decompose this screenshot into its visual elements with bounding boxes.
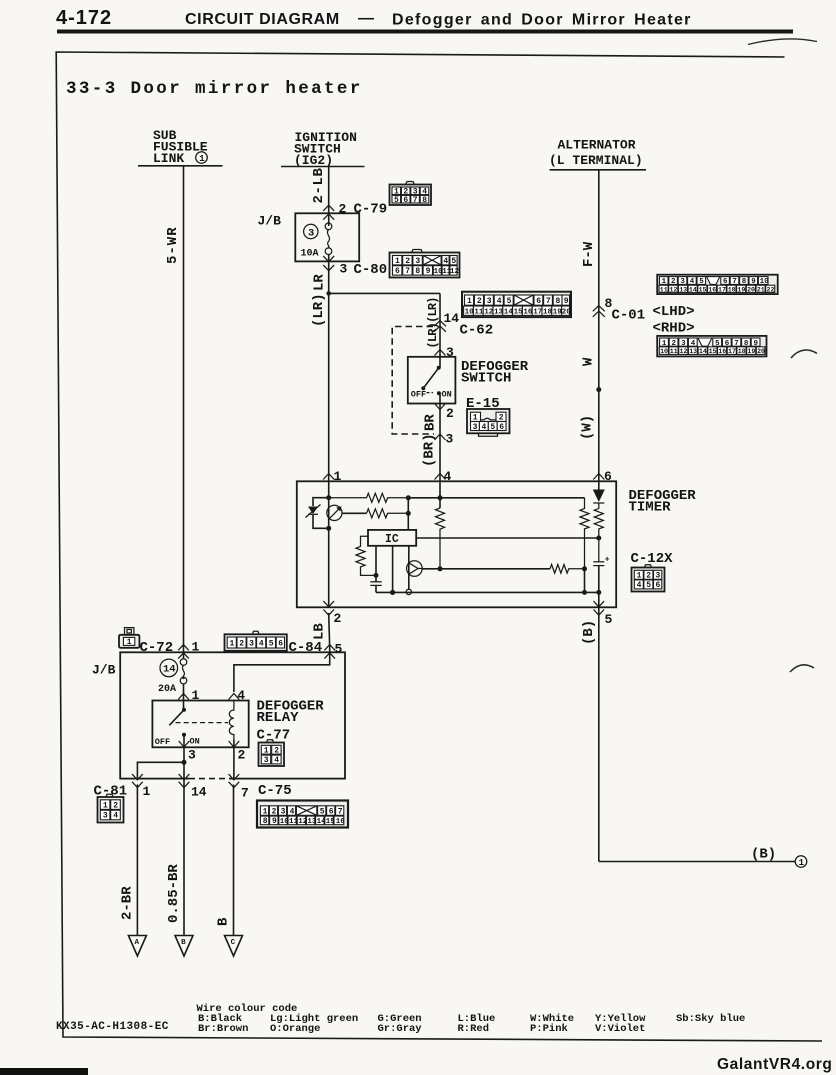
svg-text:3: 3 <box>473 423 478 432</box>
svg-text:<LHD>: <LHD> <box>653 304 695 320</box>
scan artifact arc right edge middle <box>790 665 814 672</box>
wire relay pin 3 down <box>183 735 185 763</box>
svg-text:7: 7 <box>241 786 249 801</box>
svg-text:ALTERNATOR: ALTERNATOR <box>558 138 636 153</box>
svg-text:5: 5 <box>490 423 495 432</box>
resistor R2 (lower horizontal) <box>367 509 409 518</box>
svg-text:1: 1 <box>637 572 642 581</box>
pin chevron out of switch pin 2 <box>435 404 446 410</box>
indicator circle with arrow U2 <box>327 505 342 520</box>
svg-text:C-62: C-62 <box>460 323 494 339</box>
connector crossing C-75 pin7 at J/B edge <box>229 774 240 788</box>
svg-text:<RHD>: <RHD> <box>653 321 695 337</box>
svg-text:20: 20 <box>757 348 765 355</box>
diode D2 on pin6 line <box>593 490 605 504</box>
scan artifact black bar bottom left <box>0 1068 88 1075</box>
svg-text:0.85-BR: 0.85-BR <box>166 864 182 923</box>
svg-text:RELAY: RELAY <box>257 710 300 726</box>
wire IC bottom left vertical <box>375 546 377 582</box>
svg-text:1: 1 <box>230 640 235 649</box>
resistor R1 (upper horizontal) <box>329 493 409 502</box>
svg-text:13: 13 <box>679 286 687 293</box>
connector crossing C-80 on wire <box>323 256 334 271</box>
svg-text:(B): (B) <box>751 847 776 863</box>
svg-text:C-01: C-01 <box>612 308 646 324</box>
svg-text:2: 2 <box>339 202 347 217</box>
ground symbol A <box>128 936 146 957</box>
node at R2 right <box>406 511 411 516</box>
connector chevron E-15 pin 3 <box>435 434 446 440</box>
node on pin1 wire lower <box>326 526 331 531</box>
svg-text:5: 5 <box>335 642 343 657</box>
svg-text:Br:Brown: Br:Brown <box>198 1023 248 1035</box>
circled fuse number 14 <box>160 659 178 677</box>
svg-text:+: + <box>605 556 610 565</box>
resistor R4 (left of IC, vertical) <box>356 536 376 575</box>
connector icon C-72 <box>119 628 139 648</box>
wire 2-BR to ground A <box>136 785 138 936</box>
connector drawing C-84 <box>225 631 287 651</box>
svg-text:20: 20 <box>747 286 755 293</box>
svg-text:18: 18 <box>738 348 746 355</box>
svg-text:16: 16 <box>708 286 716 293</box>
svg-text:—: — <box>358 10 374 27</box>
svg-text:12: 12 <box>680 348 688 355</box>
svg-text:1: 1 <box>143 784 151 799</box>
svg-text:5: 5 <box>646 581 651 590</box>
svg-text:12: 12 <box>670 286 678 293</box>
svg-text:2: 2 <box>113 801 118 810</box>
svg-text:6: 6 <box>499 423 504 432</box>
svg-text:3: 3 <box>188 748 196 763</box>
connector crossing C-62 (double chevron) <box>434 321 446 332</box>
svg-text:LINK: LINK <box>153 151 184 166</box>
svg-text:2: 2 <box>238 748 246 763</box>
svg-text:(B): (B) <box>581 620 597 645</box>
pin chevron timer pin 1 <box>323 474 334 480</box>
svg-text:OFF: OFF <box>411 390 426 400</box>
relay ON contact <box>182 733 186 737</box>
svg-text:10: 10 <box>465 308 475 316</box>
pin chevron relay pin 4 <box>229 694 240 700</box>
pin chevron relay pin 1 <box>178 694 189 700</box>
connector crossing timer pin 2 <box>323 601 334 615</box>
svg-text:12: 12 <box>484 308 494 316</box>
wire branch to switch (horizontal) <box>329 292 440 294</box>
open terminal circle on rail <box>406 589 411 594</box>
wire pin3 down through J/B edge <box>183 762 185 785</box>
svg-text:J/B: J/B <box>258 214 282 229</box>
svg-text:C-80: C-80 <box>354 262 388 278</box>
relay actuating dashed link <box>176 722 229 724</box>
pin chevron into switch pin 3 <box>435 350 446 356</box>
internal ground rail <box>376 591 599 593</box>
svg-text:21: 21 <box>757 286 765 293</box>
svg-text:22: 22 <box>767 286 775 293</box>
underline of alternator <box>550 169 647 171</box>
svg-text:4: 4 <box>259 640 264 649</box>
node pin6 at rail <box>596 590 601 595</box>
svg-text:5-WR: 5-WR <box>165 226 181 264</box>
node pin4 top <box>438 495 443 500</box>
svg-text:14: 14 <box>504 308 514 316</box>
svg-text:B: B <box>181 939 186 947</box>
wire branch to C-81 <box>137 762 184 778</box>
svg-text:1: 1 <box>264 746 269 755</box>
svg-text:8: 8 <box>415 267 420 276</box>
node on pin1 wire upper <box>326 495 331 500</box>
node artifact dot on alternator wire <box>596 387 601 392</box>
wire into switch <box>439 347 441 368</box>
svg-text:Gr:Gray: Gr:Gray <box>378 1023 423 1035</box>
node relay pin3 branch <box>182 760 187 765</box>
wire (LR) main down to timer pin 1 <box>328 293 330 481</box>
svg-text:(L TERMINAL): (L TERMINAL) <box>549 153 643 168</box>
wire upper rail to pin4 and right branch <box>408 497 584 499</box>
svg-text:(W): (W) <box>580 415 596 440</box>
svg-text:15: 15 <box>699 286 707 293</box>
svg-text:GalantVR4.org: GalantVR4.org <box>717 1056 832 1073</box>
svg-text:9: 9 <box>272 817 277 826</box>
wire LB timer pin2 down to C-84 <box>329 613 330 648</box>
dashed segment of J/B bottom edge <box>189 777 229 779</box>
wire R junction down into IC <box>407 498 409 530</box>
svg-text:6: 6 <box>278 640 283 649</box>
svg-text:C-72: C-72 <box>140 640 174 656</box>
internal wire pin1 vertical through timer <box>328 481 330 607</box>
svg-text:11: 11 <box>474 308 484 316</box>
wire fuse to relay pin 1 <box>183 684 185 710</box>
svg-text:5: 5 <box>451 257 456 266</box>
svg-text:6: 6 <box>536 297 541 306</box>
svg-text:C-84: C-84 <box>289 640 323 656</box>
wire transistor to right resistor <box>422 568 550 570</box>
resistor R5 (horizontal right) <box>550 565 585 574</box>
svg-text:20: 20 <box>562 308 572 316</box>
switch contact and lever <box>437 366 441 370</box>
wire 0.85-BR to ground B <box>183 785 185 936</box>
pin chevron relay pin 2 <box>229 741 240 747</box>
fuse element with terminals <box>325 223 332 230</box>
svg-text:C: C <box>231 939 236 947</box>
connector drawing C-01 LHD 22pin <box>657 275 778 294</box>
connector crossing C-01 (double chevron) <box>593 306 605 317</box>
svg-text:KX35-AC-H1308-EC: KX35-AC-H1308-EC <box>56 1021 169 1033</box>
circled ground reference 1 <box>795 856 807 868</box>
node IC middle at rail <box>390 590 395 595</box>
svg-text:ON: ON <box>442 390 452 400</box>
svg-text:18: 18 <box>543 308 553 316</box>
svg-text:12: 12 <box>450 268 460 276</box>
wire branch to switch (vertical, through C-62) <box>439 293 441 347</box>
svg-text:2-BR: 2-BR <box>120 886 136 920</box>
svg-text:13: 13 <box>307 818 317 826</box>
wire 5-WR from fusible link down to J/B C-72 <box>183 166 185 643</box>
svg-text:1: 1 <box>103 801 108 810</box>
wire circle to lower resistor <box>342 512 367 514</box>
svg-text:14: 14 <box>689 286 697 293</box>
svg-text:LB: LB <box>312 623 328 640</box>
circled fuse number 3 <box>304 224 318 238</box>
wire C-84 pin5 down and left to relay pin 4 <box>234 648 330 692</box>
svg-text:11: 11 <box>660 286 668 293</box>
svg-text:17: 17 <box>728 348 736 355</box>
connector drawing C-12X <box>632 565 665 592</box>
svg-text:10: 10 <box>280 818 290 826</box>
svg-text:CIRCUIT DIAGRAM: CIRCUIT DIAGRAM <box>185 11 340 28</box>
svg-text:SWITCH: SWITCH <box>461 371 511 387</box>
svg-text:17: 17 <box>718 286 726 293</box>
svg-text:15: 15 <box>709 348 717 355</box>
svg-text:O:Orange: O:Orange <box>270 1023 320 1035</box>
svg-text:14: 14 <box>163 664 176 676</box>
defogger timer box <box>297 481 616 607</box>
defogger switch box <box>408 357 456 404</box>
svg-text:3: 3 <box>487 297 492 306</box>
svg-text:R:Red: R:Red <box>458 1023 490 1035</box>
svg-text:1: 1 <box>799 858 805 868</box>
svg-text:4: 4 <box>113 812 118 821</box>
svg-text:1: 1 <box>263 807 268 816</box>
svg-text:2: 2 <box>499 414 504 423</box>
scan artifact arc right edge upper <box>791 350 817 358</box>
svg-text:LR: LR <box>312 274 328 291</box>
svg-text:14: 14 <box>191 785 207 800</box>
connector crossing timer pin 5 <box>594 601 605 615</box>
svg-text:4: 4 <box>497 297 502 306</box>
switch ON contact <box>437 391 441 395</box>
svg-text:15: 15 <box>514 308 524 316</box>
svg-text:IC: IC <box>385 533 399 546</box>
svg-text:(BR): (BR) <box>422 433 438 467</box>
svg-text:3: 3 <box>249 640 254 649</box>
connector drawing C-01 RHD 20pin <box>657 336 766 357</box>
svg-text:4: 4 <box>290 807 295 816</box>
wire pin6 vertical top <box>598 481 600 489</box>
svg-text:19: 19 <box>737 286 745 293</box>
svg-text:14: 14 <box>317 818 327 826</box>
svg-text:2: 2 <box>334 611 342 626</box>
svg-text:(LR): (LR) <box>311 293 327 327</box>
svg-text:P:Pink: P:Pink <box>530 1023 568 1035</box>
svg-text:7: 7 <box>546 297 551 306</box>
connector drawing C-80 <box>390 250 460 278</box>
zener diode D1 <box>306 505 321 518</box>
svg-text:6: 6 <box>395 267 400 276</box>
svg-text:C-75: C-75 <box>258 783 292 799</box>
svg-text:3: 3 <box>340 262 348 277</box>
connector crossing C-72 on 5-WR wire <box>178 645 189 659</box>
connector crossing C-84 on LB wire <box>324 645 335 659</box>
svg-text:2: 2 <box>646 572 651 581</box>
svg-text:1: 1 <box>473 414 478 423</box>
zener diode branch wires <box>313 498 329 529</box>
svg-text:10A: 10A <box>301 249 319 260</box>
scan artifact curl below rule right end <box>748 39 817 45</box>
svg-text:5: 5 <box>269 640 274 649</box>
fuse box J/B (upper) <box>295 213 359 261</box>
wire F-W alternator down to timer pin 6 <box>598 170 600 481</box>
svg-text:J/B: J/B <box>92 663 116 678</box>
svg-text:20A: 20A <box>158 684 176 695</box>
svg-text:9: 9 <box>426 267 431 276</box>
svg-text:3: 3 <box>415 257 420 266</box>
svg-text:6: 6 <box>403 196 408 205</box>
wire 2-LB ignition switch to fuse box <box>328 167 330 227</box>
svg-text:F-W: F-W <box>581 241 597 267</box>
svg-text:1: 1 <box>467 297 472 306</box>
svg-text:TIMER: TIMER <box>629 500 672 516</box>
underline of ignition switch <box>281 166 365 168</box>
node pin6 at IC wire <box>596 536 601 541</box>
svg-text:1: 1 <box>395 257 400 266</box>
svg-text:OFF: OFF <box>155 737 170 747</box>
dashed component boundary around defogger switch <box>392 327 434 435</box>
transistor Q1 <box>407 561 423 577</box>
svg-text:8: 8 <box>263 817 268 826</box>
svg-text:4: 4 <box>637 581 642 590</box>
connector drawing C-62 <box>462 292 571 317</box>
svg-text:B: B <box>216 917 232 926</box>
header thick rule <box>57 30 793 34</box>
svg-text:3: 3 <box>656 572 661 581</box>
svg-text:4: 4 <box>274 756 279 765</box>
svg-text:2: 2 <box>274 746 279 755</box>
svg-text:33-3 Door mirror heater: 33-3 Door mirror heater <box>66 79 363 99</box>
svg-text:14: 14 <box>444 311 460 326</box>
wire switch pin 2 down <box>439 393 441 481</box>
svg-text:5: 5 <box>507 297 512 306</box>
node at R junction <box>406 495 411 500</box>
svg-text:ON: ON <box>190 737 200 747</box>
svg-text:7: 7 <box>413 196 418 205</box>
svg-text:15: 15 <box>326 818 336 826</box>
connector drawing C-81 <box>98 794 124 822</box>
svg-text:A: A <box>135 939 140 947</box>
svg-text:16: 16 <box>523 308 533 316</box>
node R6 at rail <box>582 590 587 595</box>
pin chevron relay pin 3 <box>179 741 190 747</box>
svg-text:2: 2 <box>477 297 482 306</box>
svg-text:2: 2 <box>405 257 410 266</box>
ground symbol B <box>175 936 193 957</box>
wire pin4 vertical <box>439 481 441 508</box>
fuse element with terminals (J/B lower) <box>180 659 187 666</box>
svg-text:6: 6 <box>656 581 661 590</box>
svg-text:7: 7 <box>405 267 410 276</box>
connector crossing C-81 at J/B edge <box>132 774 143 788</box>
svg-text:V:Violet: V:Violet <box>595 1023 645 1035</box>
svg-text:16: 16 <box>718 348 726 355</box>
svg-text:9: 9 <box>564 297 569 306</box>
connector drawing C-77 <box>259 740 285 766</box>
junction block box J/B <box>120 652 345 778</box>
pin chevron timer pin 6 <box>593 474 604 480</box>
wire IC right to pin6 line <box>416 537 599 539</box>
ground symbol C <box>225 936 243 957</box>
svg-text:3: 3 <box>308 227 314 239</box>
svg-text:4-172: 4-172 <box>56 7 112 29</box>
node at capacitor top <box>374 573 379 578</box>
svg-text:5: 5 <box>394 196 399 205</box>
resistor R6 (right branch vertical) <box>580 498 589 569</box>
svg-text:Sb:Sky blue: Sb:Sky blue <box>676 1013 745 1025</box>
wire timer pin5 down (B) <box>598 607 600 861</box>
switch dashed throw mark <box>427 392 434 394</box>
svg-text:17: 17 <box>533 308 542 316</box>
svg-text:2: 2 <box>446 406 454 421</box>
connector drawing C-75 <box>257 801 348 828</box>
pin chevron timer pin 4 <box>435 474 446 480</box>
svg-text:8: 8 <box>556 297 561 306</box>
capacitor C1 <box>370 582 381 593</box>
svg-text:BR: BR <box>423 414 439 431</box>
relay contact and lever <box>182 708 186 712</box>
resistor R7 (pin6 vertical) <box>594 503 603 562</box>
resistor R3 (pin4 vertical) <box>436 508 445 569</box>
connector crossing C-75 pin14 at J/B edge <box>179 774 190 788</box>
svg-text:2: 2 <box>272 807 277 816</box>
svg-text:13: 13 <box>689 348 697 355</box>
svg-text:10: 10 <box>660 348 668 355</box>
svg-text:6: 6 <box>329 807 334 816</box>
svg-text:19: 19 <box>747 348 755 355</box>
wire (B) horizontal to ground point <box>599 861 796 863</box>
svg-text:1: 1 <box>199 154 205 164</box>
svg-text:1: 1 <box>127 638 132 647</box>
connector drawing E-15 <box>467 409 510 436</box>
underline of sub fusible link <box>138 165 223 167</box>
svg-text:11: 11 <box>670 348 678 355</box>
IC box U1 <box>368 530 416 546</box>
wire LR fuse to branch node <box>328 255 330 294</box>
svg-text:2: 2 <box>239 640 244 649</box>
svg-text:4: 4 <box>443 257 448 266</box>
svg-text:3: 3 <box>446 345 454 360</box>
svg-text:C-12X: C-12X <box>631 551 674 567</box>
node R5 R6 junction <box>582 566 587 571</box>
svg-text:5: 5 <box>320 807 325 816</box>
wire IC bottom right vertical (transistor base) <box>408 546 410 589</box>
svg-text:4: 4 <box>482 423 487 432</box>
svg-text:3: 3 <box>281 807 286 816</box>
svg-text:8: 8 <box>422 196 427 205</box>
svg-text:7: 7 <box>338 807 343 816</box>
defogger relay box <box>152 701 248 748</box>
connector crossing C-79 on wire <box>323 205 334 220</box>
svg-text:18: 18 <box>728 286 736 293</box>
polarized capacitor C2 <box>593 556 610 608</box>
svg-text:11: 11 <box>289 818 299 826</box>
wire R6 down to rail <box>584 569 586 593</box>
wire relay pin 2 down <box>233 740 235 779</box>
svg-text:12: 12 <box>298 818 308 826</box>
svg-text:3: 3 <box>264 756 269 765</box>
wire IC bottom middle vertical <box>392 546 394 593</box>
svg-text:2-LB: 2-LB <box>311 167 327 203</box>
relay coil L1 <box>229 701 234 741</box>
wire 5-WR into fuse <box>183 643 185 659</box>
svg-text:W: W <box>581 357 597 366</box>
svg-text:16: 16 <box>336 818 346 826</box>
wire B to ground C <box>233 785 235 936</box>
node pin4 lower <box>438 566 443 571</box>
connector drawing C-79 <box>390 182 432 206</box>
svg-text:5: 5 <box>605 612 613 627</box>
svg-text:13: 13 <box>494 308 504 316</box>
svg-text:Defogger and Door Mirror Heate: Defogger and Door Mirror Heater <box>392 12 692 29</box>
junction node branch to defogger switch <box>326 291 331 296</box>
